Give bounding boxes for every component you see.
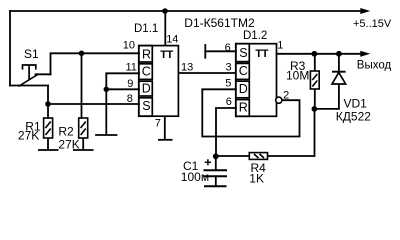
- node R3/VD1 bottom junction: [312, 106, 318, 112]
- resistor R2: [73, 118, 94, 150]
- svg-text:5: 5: [225, 77, 231, 89]
- switch S1 button: [23, 65, 36, 80]
- svg-text:D1.2: D1.2: [243, 30, 267, 42]
- cell R pin6b: [236, 100, 250, 117]
- cell D pin5: [236, 81, 250, 98]
- svg-text:D: D: [142, 82, 151, 96]
- svg-text:TT: TT: [160, 49, 173, 61]
- svg-text:+5..15V: +5..15V: [353, 18, 392, 30]
- wire left vertical from rail to S1: [9, 11, 11, 86]
- node R input junction: [79, 51, 85, 57]
- ground bar under C/D tie: [96, 134, 117, 136]
- svg-text:VD1: VD1: [344, 97, 368, 111]
- svg-text:10M: 10M: [286, 69, 309, 83]
- wire junction down to R2: [81, 53, 83, 118]
- wire pin 6 S stub: [205, 50, 236, 52]
- svg-text:1K: 1K: [249, 171, 264, 185]
- node D input junction: [104, 87, 110, 93]
- svg-text:S: S: [239, 46, 247, 60]
- wire +V top rail: [10, 10, 362, 12]
- node C1/R4 junction: [213, 153, 219, 159]
- svg-text:14: 14: [166, 33, 178, 45]
- plus sign C1: [205, 159, 211, 165]
- node output to VD1: [336, 51, 342, 57]
- svg-text:10: 10: [123, 39, 135, 51]
- pin 7 wire: [164, 116, 166, 139]
- diode VD1: [332, 54, 346, 109]
- wire pin13 to pin3: [178, 72, 235, 74]
- ground R2: [73, 149, 94, 151]
- svg-text:D: D: [239, 82, 248, 96]
- svg-text:1: 1: [277, 39, 283, 51]
- wire pin 11 C input: [106, 73, 139, 134]
- cell C pin3: [236, 63, 250, 79]
- cell S pin6: [236, 44, 250, 62]
- flip-flop D1.1: [139, 11, 179, 140]
- svg-text:КД522: КД522: [336, 110, 371, 124]
- wire pin 9 D input: [106, 88, 139, 90]
- svg-text:9: 9: [127, 78, 133, 90]
- switch S1 upper contact stub: [36, 73, 51, 75]
- svg-text:S1: S1: [24, 47, 39, 61]
- node output to R3: [312, 51, 318, 57]
- svg-text:TT: TT: [255, 48, 268, 60]
- node S input junction: [45, 101, 51, 107]
- ground C1: [204, 185, 227, 187]
- cell D pin9: [139, 81, 153, 96]
- wire from S1 upper contact up: [51, 53, 140, 74]
- ground bar S pin: [204, 45, 206, 58]
- svg-text:D1.1: D1.1: [134, 23, 158, 35]
- svg-text:3: 3: [226, 61, 232, 73]
- svg-text:R: R: [239, 100, 248, 114]
- wire S1 lower contact: [10, 85, 48, 87]
- svg-text:27K: 27K: [18, 129, 39, 143]
- svg-text:R2: R2: [58, 125, 74, 139]
- pin 14 wire: [164, 11, 166, 46]
- svg-text:8: 8: [127, 93, 133, 105]
- cell C pin11: [139, 64, 153, 80]
- arrowhead +V rail: [360, 8, 370, 14]
- svg-text:C: C: [239, 64, 248, 78]
- wire junction to VD1: [314, 108, 339, 110]
- wire pin 5 D from Q-bar loop: [202, 89, 299, 136]
- svg-text:R: R: [142, 48, 151, 62]
- ground R1: [38, 149, 59, 151]
- cell S pin8: [139, 98, 153, 116]
- arrowhead output: [360, 51, 370, 57]
- flip-flop D1.2: [236, 44, 277, 117]
- svg-text:13: 13: [181, 61, 193, 73]
- wire R4 up to R3/VD1 junction: [314, 109, 316, 156]
- svg-text:27K: 27K: [58, 138, 79, 152]
- svg-text:D1-К561ТМ2: D1-К561ТМ2: [184, 16, 255, 30]
- resistor R3: [310, 54, 319, 109]
- node rail junction to pin14: [162, 8, 168, 14]
- svg-text:C: C: [142, 64, 151, 78]
- resistor R1: [38, 118, 59, 150]
- cell R pin10: [139, 46, 153, 62]
- inverter bubble pin 2: [276, 97, 282, 103]
- svg-text:6: 6: [226, 96, 232, 108]
- ground pin7: [158, 139, 173, 141]
- wire pin 6 R down to C1: [216, 108, 236, 156]
- svg-text:S: S: [142, 99, 150, 113]
- svg-text:100м: 100м: [181, 170, 209, 184]
- wire pin 8 S input: [48, 103, 139, 105]
- resistor R4: [216, 153, 315, 160]
- svg-text:7: 7: [155, 118, 161, 130]
- wire output pin 1: [277, 53, 362, 55]
- switch S1 moving contact: [19, 75, 38, 86]
- svg-text:Выход: Выход: [357, 59, 392, 71]
- wire S1 lower contact down to R1: [47, 86, 49, 119]
- capacitor C1: [204, 156, 228, 186]
- svg-text:11: 11: [126, 62, 137, 74]
